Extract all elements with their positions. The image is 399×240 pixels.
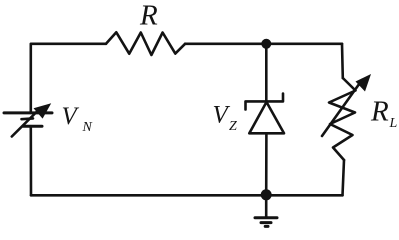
zener wire top (265, 44, 268, 102)
svg-text:V: V (62, 103, 80, 130)
svg-text:R: R (370, 96, 389, 128)
resistor RL (variable) (329, 78, 356, 160)
wire bottom (31, 194, 343, 197)
zener wire bottom (265, 133, 268, 195)
source VN arrowhead (34, 103, 52, 118)
zener cathode bar with ticks (246, 94, 284, 110)
RL arrow shaft (322, 80, 362, 136)
ground bar 3 (265, 225, 268, 228)
wire right bottom segment (343, 160, 345, 195)
svg-text:R: R (139, 0, 158, 32)
wire left bottom segment (29, 126, 32, 195)
wire top-left corner (31, 44, 106, 113)
ground bar 1 (255, 216, 277, 219)
node junction dot bottom (261, 189, 272, 200)
RL arrowhead (356, 74, 372, 92)
wire right top segment (341, 44, 344, 78)
source VN arrow shaft kink dash (22, 117, 34, 120)
svg-text:Z: Z (229, 119, 237, 134)
svg-text:N: N (82, 120, 93, 135)
svg-text:L: L (389, 116, 398, 131)
source VN arrow shaft (12, 111, 38, 137)
svg-text:V: V (213, 102, 231, 129)
ground bar 2 (261, 221, 271, 224)
source VN plates (4, 111, 52, 114)
wire top right (185, 42, 342, 45)
resistor R (106, 32, 185, 55)
node junction dot top (261, 39, 271, 49)
zener diode triangle (249, 102, 284, 133)
ground stub (265, 195, 268, 216)
